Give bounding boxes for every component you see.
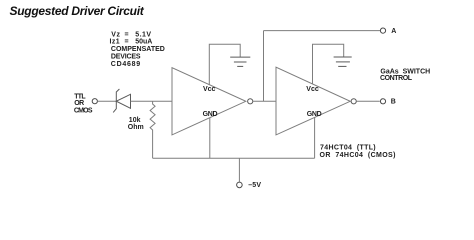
- svg-text:GND: GND: [203, 111, 218, 118]
- svg-text:=: =: [125, 39, 129, 46]
- svg-text:B: B: [391, 99, 396, 106]
- svg-text:5.1V: 5.1V: [135, 32, 151, 39]
- svg-text:50uA: 50uA: [135, 39, 152, 46]
- svg-text:CMOS: CMOS: [74, 108, 93, 115]
- svg-text:DEVICES: DEVICES: [111, 54, 141, 61]
- svg-text:OR 74HC04 (CMOS): OR 74HC04 (CMOS): [320, 152, 396, 159]
- svg-text:A: A: [391, 28, 396, 35]
- svg-text:Iz1: Iz1: [110, 39, 121, 46]
- svg-text:OR: OR: [74, 100, 84, 107]
- svg-text:–5V: –5V: [248, 182, 261, 189]
- svg-text:Ohm: Ohm: [128, 124, 144, 131]
- svg-text:10k: 10k: [129, 117, 141, 124]
- svg-text:COMPENSATED: COMPENSATED: [111, 46, 165, 53]
- svg-text:=: =: [125, 32, 129, 39]
- svg-text:74HCT04 (TTL): 74HCT04 (TTL): [320, 145, 376, 152]
- svg-text:Vcc: Vcc: [203, 86, 216, 93]
- svg-text:CD4689: CD4689: [111, 61, 141, 68]
- svg-text:Vz: Vz: [111, 32, 120, 39]
- svg-text:Vcc: Vcc: [306, 86, 319, 93]
- svg-text:CONTROL: CONTROL: [380, 75, 413, 82]
- svg-text:Suggested Driver Circuit: Suggested Driver Circuit: [10, 4, 145, 18]
- svg-text:GND: GND: [307, 111, 322, 118]
